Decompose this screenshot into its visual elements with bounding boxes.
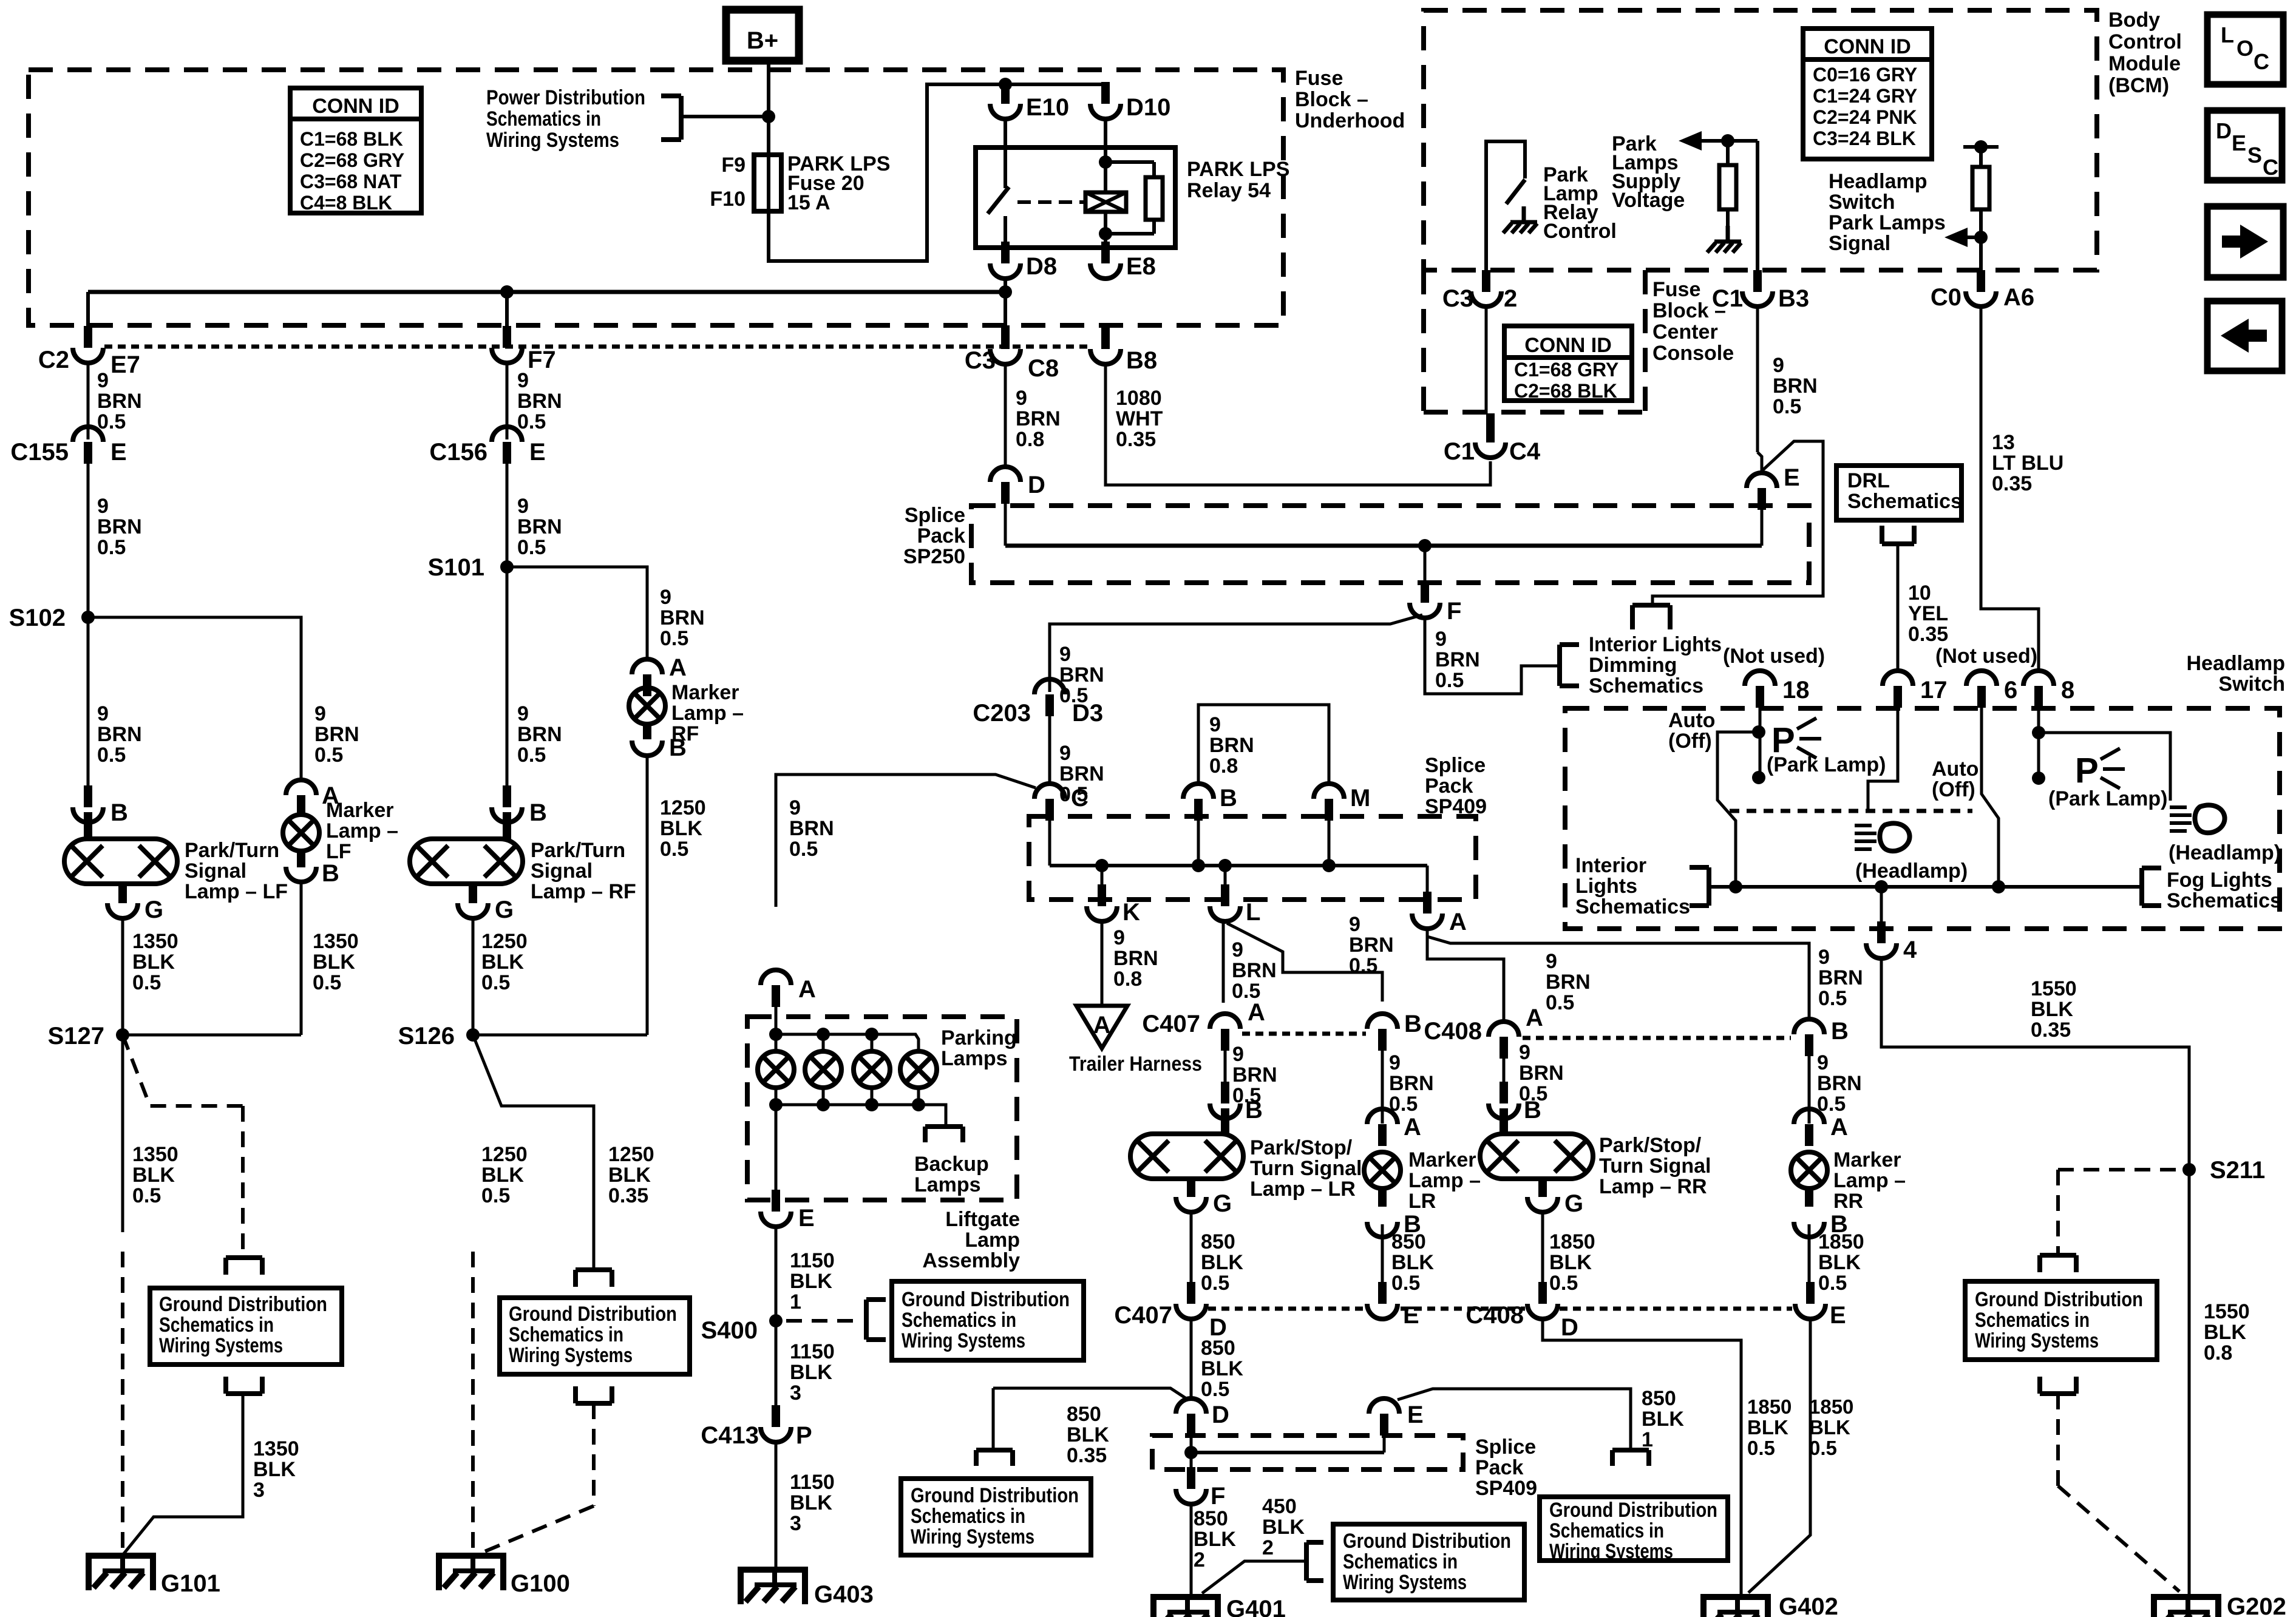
svg-text:4: 4 — [1903, 937, 1917, 963]
svg-text:A: A — [798, 976, 816, 1003]
svg-text:C3=24 BLK: C3=24 BLK — [1813, 127, 1916, 149]
CONN ID box underhood — [290, 88, 421, 213]
svg-text:10: 10 — [1908, 581, 1931, 605]
wire backup lamps — [919, 1105, 946, 1125]
svg-text:9: 9 — [1773, 354, 1784, 377]
connector F7 — [503, 326, 511, 348]
svg-text:E: E — [1784, 464, 1800, 491]
svg-text:Fuse: Fuse — [1295, 67, 1343, 90]
svg-text:BRN: BRN — [517, 515, 562, 538]
wire 1350 BLK 3 to G101 — [123, 1394, 243, 1555]
wire S102 down to LF lamp — [87, 617, 90, 786]
svg-text:0.5: 0.5 — [517, 744, 546, 767]
node coil top — [1099, 155, 1112, 169]
connector C1/C4 — [1486, 413, 1495, 442]
svg-text:C408: C408 — [1466, 1302, 1524, 1329]
svg-text:Schematics in: Schematics in — [911, 1505, 1025, 1528]
svg-text:BLK: BLK — [253, 1458, 296, 1481]
dashed branch S127 to ground distribution — [123, 1035, 243, 1106]
svg-text:B: B — [1524, 1097, 1541, 1124]
parking lamp bulb 1 — [758, 1051, 794, 1088]
svg-text:Lamp –: Lamp – — [1408, 1169, 1481, 1192]
svg-text:9: 9 — [1818, 946, 1830, 969]
svg-text:Parking: Parking — [941, 1026, 1017, 1049]
connector A SP409 out — [1423, 892, 1432, 914]
connector D10 — [1101, 82, 1110, 104]
svg-text:S211: S211 — [2210, 1157, 2265, 1184]
svg-text:C1=24 GRY: C1=24 GRY — [1813, 85, 1917, 107]
svg-text:0.35: 0.35 — [2031, 1019, 2071, 1042]
marker lamp RF bulb — [629, 688, 665, 724]
wire G-LR down — [1190, 1212, 1193, 1284]
svg-text:D: D — [1028, 472, 1045, 498]
svg-text:Park/Turn: Park/Turn — [185, 839, 279, 862]
svg-text:(Not used): (Not used) — [1723, 645, 1825, 668]
wire C156 to S101 — [506, 463, 509, 567]
svg-text:1550: 1550 — [2204, 1300, 2250, 1323]
svg-text:B: B — [1404, 1011, 1422, 1037]
bracket below box (S127) — [226, 1391, 262, 1396]
ground distribution box (850 BLK 1) — [1540, 1497, 1728, 1561]
svg-text:1250: 1250 — [481, 930, 528, 953]
connector 6 — [1977, 686, 1986, 708]
svg-text:BLK: BLK — [790, 1361, 832, 1384]
svg-text:9: 9 — [1059, 643, 1071, 666]
bracket below box (S211) — [2040, 1391, 2076, 1396]
parking lamp bulb 2 — [805, 1051, 841, 1088]
svg-text:BRN: BRN — [1817, 1072, 1862, 1095]
svg-text:O: O — [2237, 36, 2254, 61]
wire bus to connector 4 — [1880, 887, 1883, 923]
svg-text:0.35: 0.35 — [1116, 428, 1156, 451]
svg-text:Wiring Systems: Wiring Systems — [1975, 1329, 2099, 1352]
wire DRL to 17 — [1897, 544, 1900, 672]
svg-text:0.35: 0.35 — [608, 1184, 648, 1207]
wire C407-A to LR lamp — [1224, 1051, 1227, 1084]
headlamp switch dashed box — [1565, 708, 2280, 929]
svg-text:C3: C3 — [965, 347, 996, 374]
connector E liftgate — [772, 1190, 780, 1212]
svg-text:P: P — [2075, 751, 2099, 790]
wire C407-B to marker LR — [1381, 1051, 1384, 1124]
svg-text:G: G — [144, 897, 163, 923]
svg-text:S400: S400 — [701, 1317, 758, 1344]
SP409 rear bus — [1190, 1436, 1193, 1470]
wire C8 down to D — [1004, 364, 1007, 467]
svg-text:0.5: 0.5 — [314, 744, 343, 767]
wire BCM to C1/B3 — [1756, 141, 1759, 272]
wire E7 down to C155 — [87, 364, 90, 439]
svg-text:Turn Signal: Turn Signal — [1250, 1157, 1362, 1180]
svg-text:Wiring Systems: Wiring Systems — [911, 1525, 1034, 1548]
DESC box — [2207, 110, 2282, 180]
ground distribution box (S126) — [500, 1298, 690, 1374]
svg-text:BLK: BLK — [1818, 1251, 1861, 1274]
ground distribution box (S211) — [1965, 1281, 2157, 1360]
svg-text:Block –: Block – — [1295, 88, 1368, 111]
svg-text:1150: 1150 — [790, 1340, 835, 1363]
node lamp3 bottom — [865, 1098, 878, 1111]
svg-text:Backup: Backup — [914, 1153, 989, 1176]
svg-text:G100: G100 — [511, 1570, 570, 1597]
SP409 bus — [1048, 821, 1051, 866]
svg-text:0.5: 0.5 — [1349, 954, 1377, 977]
svg-text:E: E — [1403, 1302, 1419, 1329]
svg-text:Lamps: Lamps — [941, 1047, 1008, 1070]
svg-text:(Not used): (Not used) — [1935, 645, 2037, 668]
svg-text:C: C — [2254, 49, 2269, 74]
connector 8 — [2034, 686, 2043, 708]
splice pack SP409 dashed box — [1029, 816, 1476, 900]
svg-text:Lamp –: Lamp – — [671, 702, 744, 725]
svg-text:BRN: BRN — [1059, 663, 1104, 686]
svg-text:Schematics: Schematics — [1589, 674, 1703, 697]
svg-text:C3: C3 — [1442, 285, 1473, 312]
svg-text:RR: RR — [1833, 1190, 1863, 1213]
connector B SP409 in — [1194, 799, 1203, 821]
wire 8 to fog headlamp — [2039, 733, 2170, 801]
svg-text:E: E — [110, 439, 127, 466]
svg-text:Lamp –: Lamp – — [1833, 1169, 1906, 1192]
svg-text:0.5: 0.5 — [1435, 669, 1464, 692]
wire S101 branch to marker RF — [507, 567, 647, 660]
svg-text:E: E — [529, 439, 546, 466]
svg-text:BRN: BRN — [1389, 1072, 1434, 1095]
connector B rear park lamp feed — [1805, 1034, 1813, 1056]
svg-text:Voltage: Voltage — [1612, 189, 1685, 212]
wire through fuse — [767, 155, 770, 212]
wire B+ to fuse — [767, 61, 770, 157]
svg-text:18: 18 — [1782, 677, 1810, 703]
wire 4 to S211 — [1881, 960, 2189, 1595]
wire F7 down to C156 — [506, 364, 509, 439]
svg-text:BRN: BRN — [1113, 947, 1158, 970]
svg-text:BRN: BRN — [1232, 1063, 1277, 1086]
svg-text:BRN: BRN — [1435, 648, 1480, 671]
wire C407-D down to lower D — [1190, 1333, 1193, 1400]
wire G-RR down — [1541, 1212, 1544, 1284]
svg-text:Marker: Marker — [671, 681, 739, 704]
wire D8 to C3 — [1004, 279, 1007, 328]
svg-text:Lamp – LR: Lamp – LR — [1250, 1178, 1356, 1201]
node wiper6 out — [1992, 880, 2005, 893]
svg-text:0.5: 0.5 — [1809, 1437, 1837, 1459]
svg-text:Headlamp: Headlamp — [2187, 652, 2286, 675]
wire lower E diagonal to 850 BLK 1 — [1398, 1389, 1631, 1448]
svg-text:0.5: 0.5 — [1818, 1272, 1847, 1295]
marker lamp LR connector B — [1367, 1222, 1398, 1237]
svg-text:(BCM): (BCM) — [2108, 74, 2169, 97]
svg-text:C407: C407 — [1114, 1302, 1172, 1329]
svg-text:9: 9 — [97, 369, 109, 392]
connector C203/D3 — [1045, 694, 1054, 716]
svg-text:9: 9 — [789, 796, 801, 819]
connector C156/E — [503, 442, 511, 464]
svg-text:9: 9 — [1435, 628, 1447, 651]
relay switch fixed contact — [1004, 121, 1007, 188]
svg-text:G403: G403 — [814, 1581, 874, 1608]
ground G403 — [741, 1570, 805, 1604]
svg-text:2: 2 — [1262, 1536, 1274, 1559]
bracket fog lights — [2139, 868, 2144, 906]
ground distribution box (450 BLK 2) — [1333, 1524, 1524, 1600]
svg-text:BLK: BLK — [608, 1164, 651, 1187]
marker lamp RR connector B — [1794, 1222, 1824, 1237]
svg-text:1350: 1350 — [313, 930, 359, 953]
svg-text:0.8: 0.8 — [2204, 1341, 2232, 1364]
node S127 — [116, 1028, 129, 1042]
relay switch lower contact — [1004, 216, 1007, 263]
svg-text:Schematics: Schematics — [1575, 895, 1690, 918]
svg-text:0.5: 0.5 — [660, 838, 688, 861]
marker lamp RR connector A — [1805, 1124, 1813, 1146]
svg-text:D: D — [1561, 1314, 1578, 1341]
wire S126 branch solid — [473, 1035, 594, 1269]
dotted line C407 — [1242, 1032, 1366, 1036]
wire S102 branch to marker lamp LF — [88, 617, 301, 781]
node coil bottom — [1099, 227, 1112, 240]
marker lamp LF connector B — [286, 867, 316, 882]
svg-text:Assembly: Assembly — [922, 1249, 1020, 1272]
bracket 850 BLK 1 — [1612, 1448, 1649, 1453]
svg-text:1550: 1550 — [2031, 977, 2077, 1000]
svg-text:C155: C155 — [10, 439, 69, 466]
svg-text:BRN: BRN — [1016, 407, 1061, 430]
parking lamps bus top — [775, 1006, 778, 1051]
svg-text:BLK: BLK — [1747, 1416, 1788, 1439]
svg-text:F: F — [1211, 1483, 1225, 1510]
svg-text:F10: F10 — [710, 188, 746, 211]
relay coil box — [1085, 192, 1126, 212]
node S101 — [500, 560, 514, 574]
wire lamp3 top — [871, 1034, 874, 1051]
svg-text:P: P — [796, 1422, 812, 1449]
svg-text:9: 9 — [1389, 1051, 1401, 1074]
svg-text:BLK: BLK — [1809, 1416, 1850, 1439]
svg-text:A: A — [1093, 1012, 1111, 1039]
svg-text:Ground Distribution: Ground Distribution — [1549, 1499, 1717, 1522]
marker lamp LF connector A — [297, 795, 305, 817]
svg-text:BRN: BRN — [97, 390, 142, 413]
dotted line C408 lower — [1560, 1307, 1792, 1311]
bracket interior lights dimming — [1557, 645, 1562, 686]
svg-text:Control: Control — [1543, 220, 1617, 243]
bracket S400 — [864, 1300, 869, 1340]
connector C3/2 — [1482, 270, 1490, 292]
svg-text:C2: C2 — [38, 347, 69, 373]
fuse F9/F10 PARK LPS 15A — [754, 155, 781, 211]
svg-text:0.5: 0.5 — [97, 744, 126, 767]
svg-text:Lamp – LF: Lamp – LF — [185, 880, 288, 903]
svg-text:Power Distribution: Power Distribution — [486, 86, 645, 109]
wire P to G403 — [775, 1444, 778, 1568]
svg-text:D3: D3 — [1072, 700, 1103, 727]
node SP250 tap F — [1418, 539, 1432, 552]
svg-text:BRN: BRN — [1546, 971, 1591, 994]
goalpost wire B-M — [1198, 705, 1329, 785]
prev arrow box — [2207, 301, 2282, 371]
svg-text:C407: C407 — [1142, 1011, 1200, 1037]
svg-text:RF: RF — [671, 722, 699, 745]
svg-text:B: B — [110, 799, 128, 826]
svg-text:1150: 1150 — [790, 1249, 835, 1272]
relay actuation dashed link — [1017, 200, 1084, 204]
node relay feed split — [999, 78, 1012, 91]
svg-text:E8: E8 — [1126, 253, 1156, 280]
svg-text:0.5: 0.5 — [481, 1184, 510, 1207]
svg-text:0.5: 0.5 — [1546, 991, 1574, 1014]
BCM CONN ID box — [1803, 29, 1932, 159]
svg-text:Lights: Lights — [1575, 875, 1637, 898]
node B tap — [1192, 859, 1205, 872]
node SP409 rear — [1184, 1446, 1198, 1459]
svg-text:B: B — [1220, 785, 1237, 812]
svg-text:Center: Center — [1652, 320, 1718, 344]
svg-text:C8: C8 — [1028, 355, 1059, 382]
park/turn signal lamp LF — [64, 839, 177, 884]
svg-text:Auto: Auto — [1932, 758, 1978, 781]
dashed S400 to bracket — [786, 1319, 862, 1323]
svg-text:BLK: BLK — [1262, 1516, 1305, 1539]
wire fuse to relay feed — [769, 84, 1106, 261]
svg-text:BLK: BLK — [1391, 1251, 1434, 1274]
svg-text:0.5: 0.5 — [1747, 1437, 1775, 1459]
svg-text:Pack: Pack — [1425, 775, 1473, 798]
svg-text:C2=24 PNK: C2=24 PNK — [1813, 106, 1917, 128]
connector lower E — [1380, 1414, 1388, 1436]
svg-text:BLK: BLK — [313, 951, 355, 974]
svg-text:C408: C408 — [1424, 1018, 1482, 1045]
wire S126 dashed to G100 — [471, 1252, 475, 1554]
wire S127 branch horizontal — [123, 1034, 301, 1037]
svg-text:C1: C1 — [1444, 438, 1475, 465]
node lamp4 bottom — [912, 1098, 925, 1111]
connector B park/turn RF — [503, 785, 511, 807]
wire G-LF to S127 — [121, 918, 124, 1035]
wire C408-D to G402 — [1543, 1321, 1741, 1595]
svg-text:Marker: Marker — [1408, 1148, 1476, 1171]
svg-text:BRN: BRN — [97, 515, 142, 538]
bracket power distribution — [679, 96, 684, 140]
svg-text:A: A — [1404, 1114, 1421, 1141]
svg-text:Ground Distribution: Ground Distribution — [1975, 1288, 2143, 1311]
node S400 — [769, 1314, 783, 1327]
main park lamp feed bus — [88, 290, 1005, 294]
parking lamp bulb 4 — [900, 1051, 937, 1088]
svg-text:Park/Turn: Park/Turn — [531, 839, 625, 862]
svg-text:Ground Distribution: Ground Distribution — [902, 1288, 1070, 1311]
svg-text:0.5: 0.5 — [132, 971, 161, 994]
svg-text:B8: B8 — [1126, 347, 1157, 374]
connector K — [1098, 884, 1106, 906]
svg-text:F: F — [1447, 598, 1461, 625]
svg-text:BLK: BLK — [2031, 998, 2073, 1021]
svg-text:9: 9 — [1232, 1043, 1244, 1066]
connector E8 — [1101, 242, 1110, 263]
svg-text:BLK: BLK — [132, 951, 175, 974]
wire K to trailer harness — [1101, 923, 1104, 1006]
connector G park/stop RR — [1538, 1179, 1547, 1197]
svg-text:G: G — [1213, 1190, 1232, 1217]
marker lamp RF connector B — [632, 741, 662, 756]
connector E10 — [1001, 82, 1010, 104]
svg-text:9: 9 — [1519, 1041, 1530, 1064]
svg-text:1250: 1250 — [608, 1143, 654, 1166]
wire L drop — [1224, 866, 1227, 886]
svg-text:0.5: 0.5 — [517, 536, 546, 559]
svg-text:A: A — [1449, 909, 1467, 935]
svg-text:S101: S101 — [428, 554, 484, 581]
svg-text:LT BLU: LT BLU — [1992, 452, 2063, 475]
signal resistor T top — [1963, 145, 1999, 149]
relay PARK LPS Relay 54 box — [976, 147, 1175, 248]
park/turn signal lamp RF — [410, 839, 523, 884]
wire bracket to B+ wire — [681, 115, 769, 118]
wire lamp2 top — [822, 1034, 825, 1051]
svg-text:BLK: BLK — [790, 1270, 832, 1293]
svg-text:LR: LR — [1408, 1190, 1436, 1213]
svg-text:C156: C156 — [429, 439, 487, 466]
ground distribution box (S400) — [892, 1281, 1084, 1360]
svg-text:1080: 1080 — [1116, 387, 1162, 410]
svg-text:3: 3 — [790, 1381, 801, 1405]
svg-text:Module: Module — [2108, 52, 2181, 75]
svg-text:B3: B3 — [1778, 285, 1809, 312]
svg-text:BLK: BLK — [1194, 1528, 1236, 1551]
node L tap — [1218, 859, 1232, 872]
headlamp icon right — [2195, 805, 2224, 833]
wire S400 to C413-P — [775, 1321, 778, 1407]
svg-text:Splice: Splice — [1475, 1436, 1536, 1459]
relay coil feed wire — [1104, 121, 1107, 192]
wire C407-D to lower D — [1190, 1321, 1193, 1333]
wire A6 to connector 8 — [1981, 308, 2039, 672]
svg-text:(Headlamp): (Headlamp) — [1855, 859, 1968, 883]
svg-text:9: 9 — [660, 586, 671, 609]
svg-text:Underhood: Underhood — [1295, 109, 1405, 132]
wire L to C407-B diagonal — [1227, 923, 1382, 1002]
connector C407-B — [1378, 1029, 1387, 1051]
svg-text:0.5: 0.5 — [789, 838, 818, 861]
svg-text:C2=68 GRY: C2=68 GRY — [300, 149, 404, 171]
svg-text:CONN ID: CONN ID — [312, 95, 399, 118]
node F7 bus junction — [500, 285, 514, 299]
ground G202 — [2154, 1597, 2218, 1617]
svg-text:Interior Lights: Interior Lights — [1589, 633, 1722, 656]
connector C408-D — [1538, 1282, 1547, 1304]
svg-text:G: G — [495, 897, 514, 923]
svg-text:E: E — [1830, 1302, 1846, 1329]
dotted connector face line C2-F7-C3-B8 — [104, 345, 1090, 349]
switch wiper 18 — [1717, 732, 1759, 887]
svg-text:B+: B+ — [747, 27, 778, 54]
signal resistor — [1979, 147, 1983, 167]
connector C413-P — [772, 1405, 780, 1427]
svg-text:0.8: 0.8 — [1016, 428, 1044, 451]
svg-text:Lamps: Lamps — [914, 1173, 981, 1196]
svg-text:Switch: Switch — [2218, 673, 2285, 696]
svg-text:0.5: 0.5 — [132, 1184, 161, 1207]
svg-text:9: 9 — [517, 495, 529, 518]
svg-text:LF: LF — [326, 840, 352, 863]
svg-text:Wiring Systems: Wiring Systems — [1549, 1540, 1673, 1563]
connector C2/E7 — [84, 326, 92, 348]
svg-text:BLK: BLK — [132, 1164, 175, 1187]
svg-text:Marker: Marker — [326, 799, 394, 822]
svg-text:9: 9 — [97, 702, 109, 725]
wire marker RR feed — [1808, 1056, 1811, 1124]
svg-text:G202: G202 — [2227, 1593, 2286, 1617]
